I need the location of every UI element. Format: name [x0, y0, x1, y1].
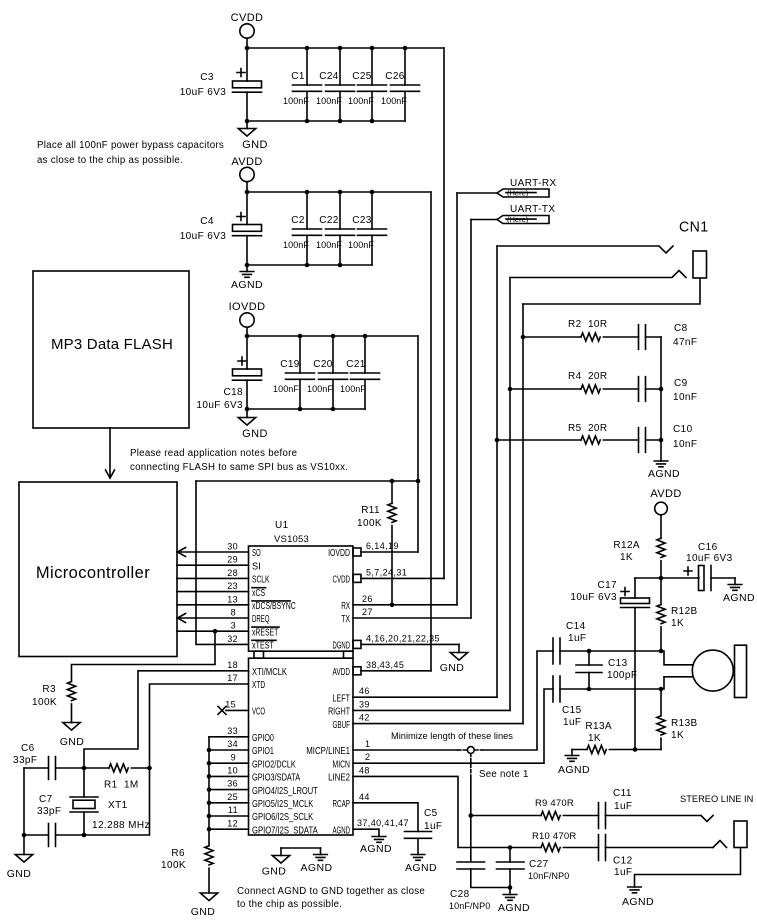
- pin VCO no-connect cross: [218, 706, 249, 714]
- svg-text:MICN: MICN: [333, 759, 351, 770]
- resistor R3 100K: [32, 682, 76, 709]
- svg-text:10uF 6V3: 10uF 6V3: [570, 592, 617, 603]
- svg-text:C16: C16: [698, 542, 718, 553]
- IC U1 connecting tabs: [254, 651, 353, 658]
- wire GPIO bus vertical: [208, 737, 210, 846]
- wire XTD to R1 right node: [150, 684, 249, 768]
- wire xRESET to microcontroller: [177, 630, 249, 632]
- wire crystal bottom node: [84, 768, 150, 835]
- note text bypass capacitors: [37, 140, 224, 166]
- wire mic lower row: [560, 677, 693, 689]
- svg-text:SO: SO: [252, 548, 261, 559]
- svg-text:See note 1: See note 1: [479, 769, 529, 780]
- svg-text:xRESET: xRESET: [252, 627, 278, 638]
- ground GND below R6: [191, 868, 218, 918]
- svg-text:29: 29: [227, 555, 238, 565]
- capacitor C6 33pF: [13, 743, 84, 780]
- svg-text:44: 44: [359, 792, 370, 802]
- svg-text:R13B: R13B: [671, 718, 698, 729]
- svg-text:C4: C4: [200, 216, 214, 227]
- svg-text:C18: C18: [223, 387, 243, 398]
- wire AVDD top bus: [247, 191, 431, 193]
- svg-text:C6: C6: [21, 743, 35, 754]
- svg-text:GND: GND: [262, 866, 287, 878]
- resistor R9 470R: [471, 798, 599, 820]
- svg-text:AGND: AGND: [648, 468, 680, 480]
- svg-text:38,43,45: 38,43,45: [366, 660, 404, 670]
- ground AGND below AVDD cluster: [231, 265, 263, 291]
- wire UART-RX vertical to chip RX pin: [456, 193, 458, 605]
- svg-text:100nF: 100nF: [273, 384, 299, 394]
- IC U1 VS1053 lower box: [249, 658, 354, 835]
- wire CVDD bottom bus: [247, 120, 405, 122]
- wire CN1 tip vertical to LEFT net: [496, 246, 498, 697]
- svg-text:RCAP: RCAP: [333, 799, 351, 810]
- svg-text:C24: C24: [319, 71, 339, 82]
- wire xDCS/BSYNC to microcontroller: [177, 604, 249, 606]
- svg-text:C19: C19: [280, 359, 300, 370]
- svg-text:GND: GND: [7, 868, 32, 880]
- wire IOVDD top bus: [247, 335, 418, 337]
- capacitor C17 10uF 6V3 electrolytic: [570, 578, 661, 750]
- capacitor C9 10nF: [639, 377, 698, 403]
- svg-text:C25: C25: [352, 71, 372, 82]
- svg-text:R12B: R12B: [671, 606, 698, 617]
- svg-text:28: 28: [227, 568, 238, 578]
- svg-text:1K: 1K: [671, 730, 684, 741]
- node junction xRESET: [213, 629, 218, 634]
- node junction dots CVDD top bus: [245, 46, 408, 51]
- wire GPIO1 to bus: [209, 749, 249, 751]
- svg-text:GBUF: GBUF: [333, 720, 351, 731]
- svg-text:100pF: 100pF: [607, 670, 637, 681]
- resistor R13B 1K: [657, 689, 698, 750]
- svg-text:C27: C27: [529, 859, 549, 870]
- wire DGND pin to GND: [361, 643, 459, 645]
- capacitor C7 33pF: [24, 794, 84, 847]
- svg-text:xDCS/BSYNC: xDCS/BSYNC: [252, 601, 296, 612]
- capacitor C1 100nF: [283, 48, 322, 121]
- svg-text:R2 10R: R2 10R: [568, 319, 608, 330]
- svg-text:UART-RX: UART-RX: [510, 178, 557, 189]
- svg-text:C20: C20: [313, 359, 333, 370]
- svg-text:R3: R3: [42, 684, 56, 695]
- svg-text:33pF: 33pF: [37, 806, 61, 817]
- svg-text:AGND: AGND: [723, 592, 755, 604]
- wire note vertical to C28 and R9: [470, 778, 472, 862]
- node CVDD power symbol: [231, 12, 264, 48]
- net flag UART-TX (Here): [471, 204, 555, 224]
- wire GBUF pin to CN1 sleeve net: [353, 723, 523, 725]
- wire xTEST to R11 net: [196, 481, 249, 644]
- svg-text:XTD: XTD: [252, 680, 265, 691]
- svg-text:U1: U1: [275, 520, 289, 531]
- capacitor C21 100nF: [340, 336, 380, 409]
- svg-text:27: 27: [362, 607, 373, 617]
- svg-text:C21: C21: [346, 359, 366, 370]
- capacitor C11 1uF: [599, 788, 702, 829]
- ground pair GND-AGND tie under chip: [262, 848, 333, 878]
- svg-text:26: 26: [362, 594, 373, 604]
- svg-text:CVDD: CVDD: [231, 12, 264, 24]
- svg-text:GND: GND: [242, 139, 268, 151]
- ground AGND below C5: [405, 855, 437, 875]
- svg-text:46: 46: [359, 686, 370, 696]
- crystal XT1 12.288 MHz: [70, 768, 150, 835]
- svg-text:AGND: AGND: [231, 279, 263, 291]
- svg-text:100nF: 100nF: [316, 96, 342, 106]
- svg-text:8: 8: [231, 608, 236, 618]
- svg-text:R12A: R12A: [613, 540, 640, 551]
- wire crystal top node: [84, 767, 109, 769]
- svg-text:AGND: AGND: [558, 764, 590, 776]
- svg-text:C13: C13: [608, 658, 628, 669]
- svg-text:C12: C12: [613, 856, 633, 867]
- capacitor C24 100nF: [316, 48, 355, 121]
- svg-text:12.288 MHz: 12.288 MHz: [92, 820, 150, 831]
- svg-text:DREQ: DREQ: [252, 614, 270, 625]
- resistor R12B 1K: [657, 578, 698, 651]
- svg-text:6,14,19: 6,14,19: [366, 541, 399, 551]
- net flag UART-RX (Here): [457, 178, 557, 198]
- node AVDD power symbol (right): [650, 488, 681, 538]
- svg-text:SCLK: SCLK: [252, 575, 270, 586]
- svg-text:C2: C2: [291, 215, 305, 226]
- wire RIGHT pin to CN1 ring net: [353, 709, 510, 711]
- wire R11 top net horizontal: [196, 480, 418, 482]
- wire AVDD vertical to chip AVDD pin: [430, 192, 432, 671]
- pin numbers U1 left upper: [227, 542, 238, 644]
- svg-text:XT1: XT1: [108, 800, 128, 811]
- svg-text:RIGHT: RIGHT: [328, 707, 350, 718]
- svg-text:39: 39: [359, 699, 370, 709]
- svg-text:AGND: AGND: [622, 896, 654, 908]
- wire DREQ to microcontroller with arrow: [177, 614, 249, 623]
- svg-text:15: 15: [225, 700, 236, 710]
- svg-text:1uF: 1uF: [563, 717, 581, 728]
- capacitor C13 100pF: [576, 651, 637, 689]
- wire SI to microcontroller: [177, 564, 249, 566]
- note dashed marker on MICP line: [458, 747, 482, 778]
- svg-text:GND: GND: [242, 428, 268, 440]
- svg-text:100nF: 100nF: [348, 96, 374, 106]
- svg-text:34: 34: [227, 739, 238, 749]
- connector stereo line in jack: [680, 794, 753, 848]
- wire GPIO0 to bus: [209, 736, 249, 738]
- ground GND below C7: [7, 855, 33, 881]
- svg-text:100nF: 100nF: [307, 384, 333, 394]
- svg-text:1K: 1K: [620, 552, 633, 563]
- svg-text:LEFT: LEFT: [333, 693, 351, 704]
- wire SO to microcontroller with arrow: [177, 548, 249, 557]
- capacitor C22 100nF: [316, 192, 355, 265]
- svg-text:36: 36: [227, 779, 238, 789]
- wire C6-C7 left vertical: [23, 768, 25, 855]
- wire GPIO4 to bus: [209, 789, 249, 791]
- wire CVDD pin to vertical: [361, 577, 444, 579]
- svg-text:Place all 100nF power bypass c: Place all 100nF power bypass capacitors: [37, 140, 224, 151]
- svg-text:CN1: CN1: [679, 219, 709, 236]
- wire GPIO7 to bus: [209, 828, 249, 830]
- resistor R12A 1K: [613, 538, 665, 578]
- capacitor C23 100nF: [348, 192, 387, 265]
- svg-text:C11: C11: [613, 788, 632, 799]
- svg-text:AGND: AGND: [360, 843, 392, 855]
- wire IOVDD bottom bus: [247, 408, 365, 410]
- svg-text:C28: C28: [450, 889, 470, 900]
- ground AGND below C10: [648, 461, 680, 480]
- wire CN1 sleeve vertical to GBUF net: [522, 304, 524, 724]
- svg-text:R11: R11: [361, 505, 380, 516]
- wire C8/C9/C10 common vertical: [660, 337, 662, 461]
- capacitor C10 10nF: [639, 424, 698, 452]
- capacitor C3 10uF 6V3 electrolytic: [180, 48, 262, 121]
- svg-text:1uF: 1uF: [568, 633, 586, 644]
- capacitor C18 10uF 6V3 electrolytic: [196, 336, 261, 411]
- wire CVDD top bus: [247, 47, 444, 49]
- svg-text:1: 1: [365, 739, 370, 749]
- ground GND below CVDD cluster: [238, 121, 268, 151]
- svg-text:13: 13: [227, 594, 238, 604]
- wire GPIO5 to bus: [209, 802, 249, 804]
- wire MICP row from chip: [353, 749, 458, 751]
- svg-text:RX: RX: [341, 601, 350, 612]
- svg-text:IOVDD: IOVDD: [328, 548, 350, 559]
- svg-text:33pF: 33pF: [13, 755, 37, 766]
- svg-text:GPIO1: GPIO1: [252, 746, 274, 757]
- capacitor C25 100nF: [348, 48, 387, 121]
- svg-text:10uF 6V3: 10uF 6V3: [686, 553, 733, 564]
- resistor R10 470R: [508, 831, 599, 852]
- wire AVDD bottom bus: [247, 264, 372, 266]
- svg-text:10uF 6V3: 10uF 6V3: [180, 87, 227, 98]
- svg-text:GND: GND: [191, 906, 216, 918]
- svg-text:AGND: AGND: [301, 862, 333, 874]
- svg-text:100nF: 100nF: [381, 96, 407, 106]
- svg-text:10: 10: [227, 766, 238, 776]
- wire CVDD vertical to chip CVDD pin: [443, 48, 445, 578]
- svg-text:Microcontroller: Microcontroller: [36, 564, 150, 582]
- capacitor C5 1uF: [405, 808, 443, 855]
- svg-text:C26: C26: [385, 71, 405, 82]
- capacitor C26 100nF: [381, 48, 420, 121]
- svg-text:VCO: VCO: [252, 707, 265, 718]
- pin bus boxes U1 right power pins: [353, 548, 361, 675]
- svg-text:1uF: 1uF: [614, 867, 632, 878]
- resistor R6 100K: [161, 846, 213, 871]
- svg-text:1K: 1K: [671, 618, 684, 629]
- capacitor C15 1uF: [553, 676, 582, 728]
- svg-text:Minimize length of these lines: Minimize length of these lines: [391, 731, 513, 741]
- wire stereo jack sleeve to AGND: [635, 848, 741, 888]
- svg-text:C3: C3: [200, 72, 214, 83]
- svg-text:C15: C15: [562, 705, 582, 716]
- svg-text:R6: R6: [171, 848, 185, 859]
- svg-text:UART-TX: UART-TX: [510, 204, 555, 215]
- wire IOVDD vertical to R11 net and chip IOVDD pin: [417, 336, 419, 552]
- wire GPIO2 to bus: [209, 762, 249, 764]
- svg-text:AVDD: AVDD: [650, 488, 681, 500]
- svg-text:AGND: AGND: [405, 862, 437, 874]
- wire mic upper row: [560, 651, 693, 665]
- svg-text:100nF: 100nF: [283, 240, 309, 250]
- svg-text:9: 9: [231, 752, 236, 762]
- svg-text:R9 470R: R9 470R: [535, 798, 574, 809]
- svg-text:STEREO LINE IN: STEREO LINE IN: [680, 794, 753, 804]
- svg-text:17: 17: [227, 673, 238, 683]
- svg-text:1uF: 1uF: [424, 821, 442, 832]
- node IOVDD power symbol: [229, 301, 266, 336]
- wire UART-TX vertical to chip TX pin: [470, 220, 472, 619]
- svg-text:30: 30: [227, 542, 238, 552]
- svg-text:10uF 6V3: 10uF 6V3: [180, 231, 227, 242]
- svg-text:42: 42: [359, 713, 370, 723]
- svg-text:100nF: 100nF: [348, 240, 374, 250]
- svg-text:R10 470R: R10 470R: [532, 831, 576, 842]
- wire MICP to C14: [482, 651, 553, 750]
- wire MICN row from chip: [353, 689, 553, 763]
- svg-text:C17: C17: [597, 580, 617, 591]
- svg-text:MICP/LINE1: MICP/LINE1: [306, 746, 350, 757]
- svg-text:25: 25: [227, 792, 238, 802]
- svg-text:AVDD: AVDD: [231, 156, 262, 168]
- svg-text:5,7,24,31: 5,7,24,31: [366, 567, 407, 577]
- svg-text:AVDD: AVDD: [333, 667, 351, 678]
- wire AVDD pin to vertical: [361, 670, 431, 672]
- svg-text:C23: C23: [352, 215, 372, 226]
- wire LINE2 from chip to R10 row: [353, 776, 541, 847]
- resistor R11 100K: [357, 481, 396, 605]
- svg-text:12: 12: [227, 818, 238, 828]
- wire SCLK to microcontroller: [177, 577, 249, 579]
- svg-text:GND: GND: [440, 662, 465, 674]
- ground GND below IOVDD cluster: [238, 409, 268, 440]
- wire CN1 ring vertical to RIGHT net: [509, 278, 511, 711]
- capacitor C19 100nF: [273, 336, 315, 409]
- svg-text:100K: 100K: [161, 860, 186, 871]
- wire GPIO3 to bus: [209, 775, 249, 777]
- svg-text:47nF: 47nF: [673, 337, 697, 348]
- svg-text:10nF: 10nF: [673, 439, 697, 450]
- svg-text:23: 23: [227, 581, 238, 591]
- ground AGND below C27: [498, 885, 530, 914]
- svg-text:LINE2: LINE2: [328, 773, 350, 784]
- capacitor C4 10uF 6V3 electrolytic: [180, 192, 262, 265]
- wire TX pin to UART-TX vertical: [353, 617, 471, 619]
- svg-text:MP3 Data FLASH: MP3 Data FLASH: [51, 336, 173, 353]
- svg-text:C7: C7: [39, 794, 53, 805]
- svg-text:1uF: 1uF: [614, 801, 632, 812]
- note text FLASH application notes: [130, 448, 348, 473]
- svg-text:37,40,41,47: 37,40,41,47: [357, 818, 409, 828]
- resistor R4 20R: [508, 371, 639, 393]
- capacitor C8 47nF: [639, 323, 698, 349]
- svg-text:C10: C10: [673, 424, 693, 435]
- svg-text:C9: C9: [674, 378, 688, 389]
- svg-text:AGND: AGND: [333, 825, 351, 836]
- capacitor C14 1uF: [553, 621, 586, 664]
- node AVDD power symbol (top): [231, 156, 262, 192]
- resistor R5 20R: [495, 423, 639, 444]
- svg-text:xTEST: xTEST: [252, 641, 274, 652]
- wire RX pin to UART-RX vertical: [353, 604, 457, 606]
- svg-text:GPIO6/I2S_SCLK: GPIO6/I2S_SCLK: [252, 812, 313, 823]
- svg-text:100nF: 100nF: [283, 96, 309, 106]
- svg-text:100K: 100K: [32, 697, 57, 708]
- ground AGND at R13A: [558, 750, 590, 777]
- wire LEFT pin to CN1 tip net: [353, 696, 497, 698]
- svg-text:R13A: R13A: [585, 721, 612, 732]
- ground AGND at stereo jack: [622, 887, 654, 908]
- svg-text:10nF/NP0: 10nF/NP0: [449, 901, 490, 911]
- svg-text:SI: SI: [252, 561, 261, 572]
- svg-text:100nF: 100nF: [340, 384, 366, 394]
- note text connect AGND to GND: [237, 886, 425, 910]
- svg-text:CVDD: CVDD: [333, 575, 351, 586]
- svg-text:C5: C5: [424, 808, 438, 819]
- ground AGND at chip AGND pin: [360, 837, 392, 856]
- ground GND below R3: [60, 704, 85, 748]
- IC U1 VS1053 upper box: [249, 520, 354, 651]
- svg-text:100nF: 100nF: [316, 240, 342, 250]
- svg-text:Please read application notes: Please read application notes before: [130, 448, 297, 459]
- svg-text:AGND: AGND: [498, 902, 530, 914]
- wire xRESET net down to R3: [72, 631, 216, 681]
- capacitor C12 1uF: [599, 835, 714, 879]
- svg-text:xCS: xCS: [252, 588, 265, 599]
- ground AGND at C16: [723, 578, 755, 604]
- svg-text:33: 33: [227, 726, 238, 736]
- microphone symbol: [692, 645, 746, 697]
- svg-text:GND: GND: [60, 736, 85, 748]
- svg-text:R1 1M: R1 1M: [104, 780, 139, 791]
- svg-text:Connect AGND to GND together a: Connect AGND to GND together as close: [237, 886, 425, 897]
- svg-text:R5 20R: R5 20R: [568, 423, 608, 434]
- svg-text:R4 20R: R4 20R: [568, 371, 608, 382]
- svg-text:GPIO5/I2S_MCLK: GPIO5/I2S_MCLK: [252, 799, 313, 810]
- svg-text:11: 11: [228, 805, 238, 815]
- svg-text:2: 2: [365, 752, 370, 762]
- block Microcontroller: [19, 482, 177, 657]
- wire xCS to microcontroller: [177, 591, 249, 593]
- svg-text:100K: 100K: [357, 518, 382, 529]
- capacitor C16 10uF 6V3 electrolytic: [661, 542, 735, 591]
- svg-text:C8: C8: [674, 323, 688, 334]
- pin names U1 right: [306, 548, 350, 836]
- svg-text:IOVDD: IOVDD: [229, 301, 266, 313]
- pin numbers U1 left lower: [225, 660, 238, 828]
- svg-text:as close to the chip as possib: as close to the chip as possible.: [37, 155, 183, 166]
- wire IOVDD pin to vertical: [361, 551, 418, 553]
- svg-text:GPIO3/SDATA: GPIO3/SDATA: [252, 773, 300, 784]
- resistor R1 1M: [104, 764, 150, 791]
- svg-text:18: 18: [227, 660, 238, 670]
- svg-text:GPIO4/I2S_LROUT: GPIO4/I2S_LROUT: [252, 786, 318, 797]
- pin names U1 left lower: [252, 667, 318, 836]
- svg-text:to the chip as possible.: to the chip as possible.: [237, 899, 342, 910]
- svg-text:connecting FLASH to same SPI b: connecting FLASH to same SPI bus as VS10…: [130, 462, 348, 473]
- svg-text:10uF 6V3: 10uF 6V3: [196, 400, 243, 411]
- svg-text:TX: TX: [341, 614, 350, 625]
- svg-text:XTI/MCLK: XTI/MCLK: [252, 667, 287, 678]
- wire RCAP to C5: [353, 803, 418, 832]
- svg-text:48: 48: [359, 765, 370, 775]
- svg-text:VS1053: VS1053: [274, 534, 309, 545]
- svg-text:GPIO2/DCLK: GPIO2/DCLK: [252, 759, 296, 770]
- connector CN1 headphone jack: [497, 219, 709, 305]
- svg-text:10nF/NP0: 10nF/NP0: [528, 871, 569, 881]
- svg-text:10nF: 10nF: [673, 392, 697, 403]
